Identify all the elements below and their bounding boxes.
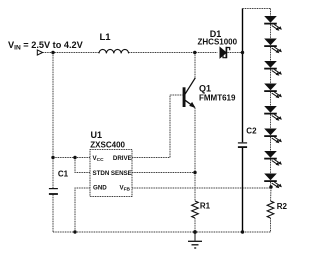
svg-text:VCC: VCC [93, 155, 105, 163]
svg-text:VFB: VFB [119, 184, 130, 192]
svg-text:C2: C2 [246, 126, 257, 135]
svg-text:R2: R2 [277, 202, 288, 211]
svg-text:Q1: Q1 [199, 83, 211, 93]
svg-text:DRIVE: DRIVE [113, 155, 132, 162]
svg-text:R1: R1 [200, 202, 211, 211]
svg-text:L1: L1 [100, 32, 112, 43]
svg-text:U1: U1 [91, 130, 103, 140]
svg-text:STDN: STDN [93, 170, 110, 177]
svg-text:C1: C1 [58, 170, 69, 179]
svg-text:FMMT619: FMMT619 [199, 93, 236, 102]
svg-text:ZXSC400: ZXSC400 [90, 141, 125, 150]
svg-text:ZHCS1000: ZHCS1000 [198, 37, 238, 46]
svg-text:GND: GND [93, 184, 107, 191]
svg-text:SENSE: SENSE [111, 170, 132, 177]
svg-text:VIN = 2.5V to 4.2V: VIN = 2.5V to 4.2V [8, 40, 84, 52]
